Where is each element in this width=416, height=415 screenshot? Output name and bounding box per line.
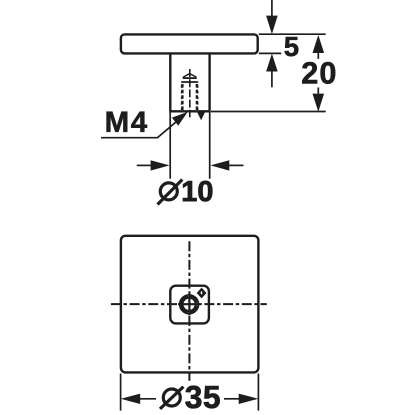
side view: knob head (top plate) [121,34,258,53]
threaded hole: cross horizontal [178,303,200,305]
dim 20: dimension line lower segment [317,88,319,94]
threaded hole: bore [184,299,195,310]
dim Ø10: right tail line [228,164,244,166]
dim 5: extension line bottom [259,52,282,54]
top view: small square boss [170,286,209,324]
dim Ø35: diameter symbol [160,387,183,409]
dim Ø10: diameter symbol [158,180,183,205]
thread minor-diameter top bar [183,77,197,79]
threaded hole: thread texture arc [181,296,197,312]
dim Ø10: right extension line [209,113,211,179]
dim 20: extension line bottom [211,111,326,113]
dim Ø35: right arrow (right-pointing) [239,394,259,404]
thread centerline [189,69,191,117]
dim 5: extension line top [259,33,326,35]
dim 5: lower arrow (up) [266,54,278,72]
side view: stem (Ø10 boss) [169,54,211,112]
dim 20: dimension line upper segment [317,53,319,59]
dim Ø35: left line segment [140,398,157,400]
dim Ø10: right arrow (left-pointing) [210,160,229,170]
dim Ø35: left arrow (left-pointing) [121,394,141,404]
dim 20: lower arrow (down) [313,94,325,112]
thread right flank (dashed hidden line) [196,84,198,110]
dim 5: value [285,37,299,56]
dim Ø35: left extension line [120,374,122,411]
pin: diamond marker [197,288,207,299]
threaded hole: outer ring [179,294,200,315]
thread chamfer mark [197,112,205,120]
dim 20: value [302,62,335,84]
dim 5: lower dimension line [271,72,273,88]
dim Ø35: right extension line [257,374,259,411]
pin: center hole [201,291,203,294]
dim Ø35: value digits [186,386,220,408]
dim 5: upper dimension line [271,0,273,17]
dim Ø35: right line segment [224,398,239,400]
thread left flank (dashed hidden line) [181,84,183,110]
dim 20: upper arrow (up) [313,35,325,53]
dim Ø10: left tail line [137,164,152,166]
vertical centerline [188,241,190,381]
dim 5: upper arrow (down) [266,16,278,34]
dim Ø10: left arrow (right-pointing) [151,160,170,170]
horizontal centerline [111,303,267,305]
threaded hole: cross vertical [188,293,190,315]
thread drill cone (hidden) [183,74,196,78]
label M4 [107,112,147,132]
M4 leader line [101,115,185,138]
M4 leader arrowhead [172,112,188,126]
dim Ø10: left extension line [169,113,171,179]
dim Ø10: value digits [183,181,212,202]
top view: square body outline [121,236,259,373]
thread major-diameter top bar [181,81,198,83]
